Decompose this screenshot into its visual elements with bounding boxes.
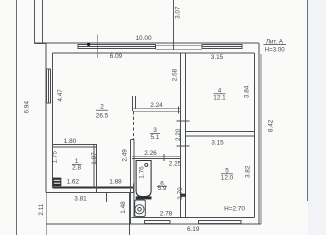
dimension texts rotated (23, 6, 274, 216)
svg-text:3.82: 3.82 (244, 165, 251, 178)
bath section left wall inner (133, 139, 135, 217)
svg-text:1.76: 1.76 (138, 166, 145, 179)
svg-text:2.20: 2.20 (175, 128, 182, 141)
outer corner stub bottom right (260, 54, 262, 224)
window top-right mid line (202, 46, 242, 48)
svg-text:2.70: 2.70 (177, 187, 184, 200)
room1 top wall line A (53, 144, 98, 146)
boiler AGV symbol (53, 178, 62, 187)
svg-text:2.25: 2.25 (169, 161, 182, 168)
left wall inner face (52, 53, 54, 187)
boundary line top (3.07) (173, 0, 175, 50)
right margin tint (308, 0, 326, 235)
svg-text:2.49: 2.49 (121, 149, 128, 162)
svg-text:2.11: 2.11 (38, 203, 45, 215)
svg-text:6.19: 6.19 (187, 226, 200, 233)
niche bottom wall line A (134, 108, 181, 110)
svg-text:Н=2.70: Н=2.70 (224, 205, 245, 212)
bath top wall line A (132, 155, 181, 157)
bottom window room5 rect (198, 220, 241, 223)
survey dot (87, 43, 90, 46)
svg-text:2.26: 2.26 (144, 150, 157, 157)
room1 top wall line B (53, 146, 98, 148)
chimney projection left line (34, 0, 36, 44)
dashed opening room2-room3 (133, 111, 135, 139)
wall junction blob W1 (180, 194, 186, 197)
plot boundary right (307, 0, 309, 201)
terrace left edge extension (45, 193, 47, 235)
wall rooms 4-5 line B (186, 135, 255, 137)
wall rooms 4-5 line A (186, 130, 255, 132)
svg-text:6.94: 6.94 (23, 101, 30, 114)
svg-text:3.81: 3.81 (74, 195, 87, 202)
svg-text:2.78: 2.78 (160, 210, 173, 217)
dim tick 2.26 wall (163, 154, 165, 161)
room1 right wall left face (93, 145, 95, 188)
window top-left mid line (78, 45, 155, 47)
top wall inner face (53, 52, 255, 54)
niche bottom wall line B (134, 110, 181, 112)
dim tick W1 lower (177, 145, 190, 147)
window left wall mid line (47, 69, 49, 103)
svg-text:6.09: 6.09 (110, 53, 123, 60)
dim tick W1 upper (177, 120, 190, 122)
svg-text:12.1: 12.1 (213, 95, 226, 102)
wall W1 right face (185, 53, 187, 217)
window top-left outer line (78, 44, 155, 48)
bath wall top cap (131, 138, 134, 140)
svg-text:3.15: 3.15 (211, 140, 224, 147)
room number labels (72, 88, 234, 193)
svg-text:5.1: 5.1 (151, 134, 160, 141)
svg-text:1.48: 1.48 (120, 201, 127, 214)
bottom-right wall inner face (132, 216, 255, 218)
svg-text:2.24: 2.24 (150, 102, 163, 109)
dim tick 2.24 right (178, 106, 180, 113)
bottom window bath rect (145, 220, 171, 223)
bathtub (136, 161, 152, 200)
svg-text:2.68: 2.68 (172, 68, 179, 81)
svg-text:1.80: 1.80 (64, 138, 77, 145)
window left wall rect (46, 69, 50, 103)
svg-text:4: 4 (218, 88, 222, 95)
svg-text:3.15: 3.15 (211, 54, 224, 61)
svg-text:3.07: 3.07 (175, 6, 182, 19)
left wall outer face (45, 43, 47, 192)
bottom-left partition thick (53, 186, 135, 188)
right wall outer face (258, 43, 260, 224)
svg-text:26.5: 26.5 (96, 113, 109, 120)
building title block (264, 39, 287, 54)
top wall outer face (35, 42, 259, 44)
svg-text:1.75: 1.75 (51, 151, 58, 164)
toilet (135, 200, 146, 216)
svg-text:3.84: 3.84 (243, 85, 250, 98)
svg-text:1.88: 1.88 (109, 178, 122, 185)
terrace right edge (129, 193, 131, 235)
svg-text:Н=3.00: Н=3.00 (265, 47, 285, 54)
svg-text:1.87: 1.87 (91, 152, 98, 165)
bottom-right wall outer face / dim line 6.19 (46, 223, 261, 225)
niche left stub wall line A (131, 96, 133, 111)
survey axis vertical (96, 35, 98, 59)
svg-text:2: 2 (100, 104, 104, 111)
entrance door leaf stub (106, 193, 108, 202)
svg-text:4.47: 4.47 (57, 89, 64, 102)
bottom-left wall outer line (46, 192, 134, 194)
svg-text:8.42: 8.42 (267, 119, 274, 132)
right wall inner face (254, 53, 256, 217)
svg-text:10.00: 10.00 (136, 35, 152, 42)
svg-text:12.0: 12.0 (221, 175, 234, 182)
door jamb entrance (133, 184, 135, 193)
svg-text:2.8: 2.8 (72, 164, 81, 171)
bath top wall line B (132, 158, 181, 160)
wall pier between windows bottom line (155, 49, 202, 51)
wall pier between windows top line (155, 44, 202, 46)
dimension texts horizontal (64, 35, 246, 233)
niche left stub wall line B (134, 96, 136, 109)
bath section left wall outer (130, 139, 132, 224)
room1 right wall right face (95, 145, 97, 193)
plot boundary left (16, 0, 18, 235)
svg-text:1.62: 1.62 (67, 179, 80, 186)
chimney projection right line (42, 0, 44, 44)
window top-right rect (202, 45, 242, 49)
wall W1 left face (179, 53, 181, 217)
svg-text:5.9: 5.9 (158, 185, 167, 192)
chimney bottom ledge (35, 43, 47, 45)
